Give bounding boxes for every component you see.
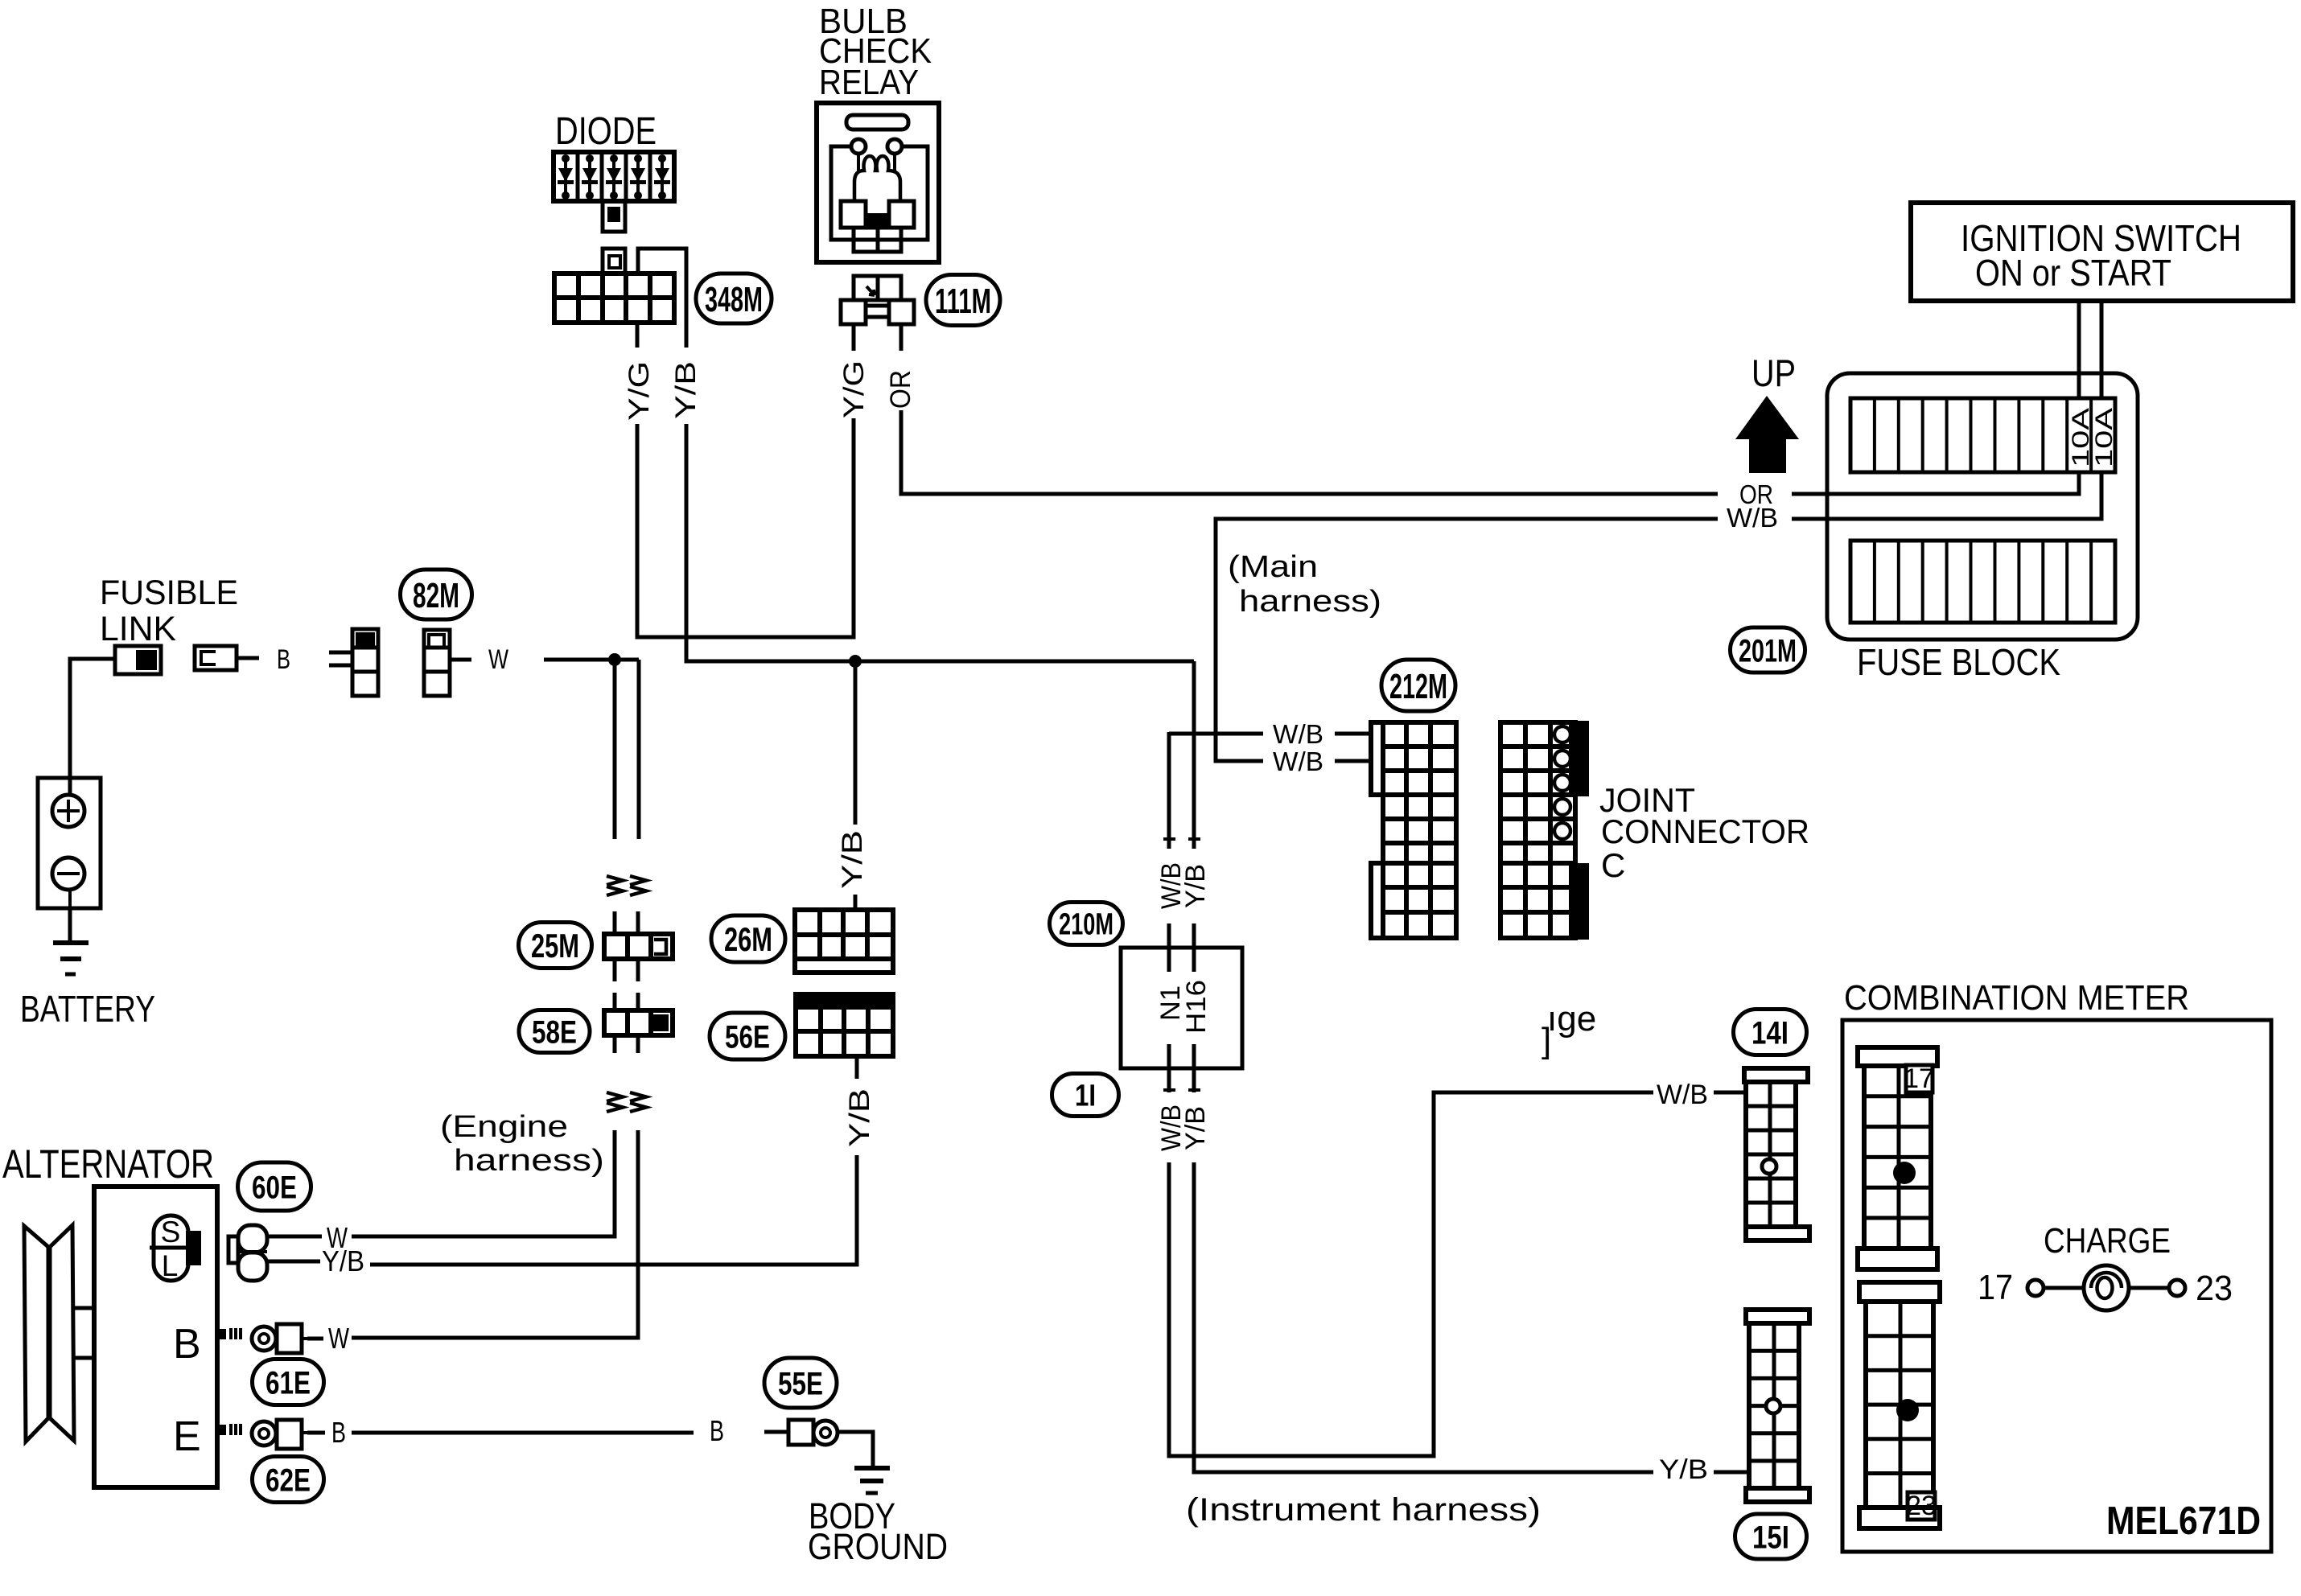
ignition switch box <box>1911 203 2293 301</box>
wire: W/B down to 210M <box>1163 732 1175 849</box>
wire: Y/B net from diode down to main run <box>686 424 1194 661</box>
wire: W/B from corner to label row1 <box>1169 732 1263 736</box>
bulb check relay box <box>817 103 939 262</box>
svg-text:(Engine: (Engine <box>440 1110 568 1144</box>
wire: W feed to junction <box>544 658 639 662</box>
wire: W/B to 14I <box>1169 1092 1653 1456</box>
meter connector strip (17 side) <box>1858 1047 1937 1269</box>
svg-text:Y/B: Y/B <box>322 1244 364 1277</box>
svg-text:W/B: W/B <box>1727 503 1778 533</box>
label Y/G (diode wire) <box>624 361 655 421</box>
oval label 60E <box>238 1162 311 1211</box>
svg-text:111M: 111M <box>935 282 991 321</box>
S/L terminal oval <box>150 1216 201 1282</box>
svg-text:212M: 212M <box>1389 667 1447 706</box>
label Y/B (above 210M) <box>1180 864 1211 908</box>
svg-text:]: ] <box>1542 1021 1551 1060</box>
svg-text:MEL671D: MEL671D <box>2106 1499 2261 1543</box>
connector 56E <box>794 993 895 1056</box>
svg-text:W: W <box>488 644 508 675</box>
diode label <box>555 110 657 153</box>
svg-text:FUSE BLOCK: FUSE BLOCK <box>1857 641 2060 683</box>
connector 15I <box>1746 1310 1809 1502</box>
svg-text:S: S <box>161 1216 181 1248</box>
wire: E terminal to B label <box>307 1431 325 1435</box>
label Y/G (relay wire) <box>838 360 870 418</box>
wire: W main down (pin2) <box>637 660 641 839</box>
svg-text:H16: H16 <box>1181 980 1212 1034</box>
wire: S to W label <box>267 1235 322 1239</box>
svg-text:harness): harness) <box>454 1144 604 1178</box>
wire: W/B into 212M row1 <box>1335 732 1371 736</box>
oval label 56E <box>710 1013 785 1059</box>
svg-text:Y/G: Y/G <box>624 361 655 421</box>
svg-text:62E: 62E <box>265 1462 311 1498</box>
label Y/B (15I wire) <box>1659 1454 1708 1485</box>
svg-text:(Main: (Main <box>1228 550 1318 584</box>
wire: Y/G net diode-to-relay <box>637 418 854 637</box>
wire: Y/B into 15I <box>1714 1471 1749 1475</box>
diode pack bottom tab with black key <box>603 201 625 232</box>
svg-text:Y/B: Y/B <box>1180 1106 1211 1150</box>
wire: W/B from fuse (right half) <box>1792 474 2101 519</box>
wire: W branch down (pin1) <box>613 660 617 839</box>
oval label 55E <box>764 1358 837 1408</box>
fuse row top (with 10A 10A) <box>1850 398 2118 472</box>
alternator label <box>2 1141 214 1187</box>
wire: battery to fusible link <box>70 659 115 796</box>
svg-text:ON or START: ON or START <box>1975 252 2171 294</box>
label B (E wire) <box>331 1416 346 1449</box>
meter connector strip (23 side) <box>1859 1282 1940 1528</box>
main harness note <box>1228 550 1381 619</box>
wire: Y/B stub into 26M <box>854 895 858 910</box>
wire: OR from fuse (right half) <box>1792 474 2079 494</box>
svg-text:56E: 56E <box>725 1019 770 1055</box>
label OR (relay wire) <box>885 370 916 409</box>
connector 60E (S/L) <box>228 1225 267 1281</box>
battery label <box>20 988 155 1030</box>
wire: Y/B 56E to alternator L <box>370 1155 857 1265</box>
svg-text:1I: 1I <box>1075 1080 1096 1113</box>
label H16 (rotated) <box>1181 980 1212 1034</box>
connector 348M body <box>554 274 674 323</box>
svg-text:26M: 26M <box>724 920 772 958</box>
label B terminal <box>173 1321 201 1368</box>
svg-text:OR: OR <box>885 370 916 409</box>
label W/B (212M row1) <box>1273 719 1323 749</box>
B ring terminal <box>252 1324 307 1353</box>
oval label 61E <box>253 1359 324 1405</box>
svg-text:L: L <box>162 1249 179 1282</box>
label N1 (rotated) <box>1155 985 1186 1021</box>
body ground label <box>808 1495 948 1567</box>
UP arrow <box>1735 396 1799 473</box>
svg-text:RELAY: RELAY <box>819 63 919 102</box>
svg-text:17: 17 <box>1904 1063 1934 1094</box>
connector box 210M/1I <box>1121 948 1242 1068</box>
battery <box>38 778 101 908</box>
connector 212M <box>1371 722 1456 938</box>
wire: 348M Y/B pin loop (up and over) <box>638 249 686 348</box>
svg-text:E: E <box>173 1413 201 1460</box>
label Y/B (26M branch) <box>837 830 868 889</box>
wire: stubs below 58E <box>615 1035 638 1053</box>
alternator shaft <box>74 1308 94 1358</box>
oval label 14I <box>1734 1010 1807 1055</box>
svg-text:DIODE: DIODE <box>555 110 657 153</box>
connector 14I <box>1744 1068 1809 1240</box>
svg-text:C: C <box>1601 846 1625 884</box>
svg-text:B: B <box>277 644 290 675</box>
connector (82M mate) <box>352 629 378 696</box>
wire: Y/B down to 210M <box>1188 661 1200 849</box>
wire: 348M Y/G pin stub <box>636 323 640 348</box>
connector 26M <box>795 910 893 973</box>
connector pair stubs <box>329 652 352 665</box>
label W (S wire) <box>327 1221 348 1254</box>
svg-text:210M: 210M <box>1059 908 1113 942</box>
oval label 111M <box>926 275 1000 326</box>
wire: ignition to fuse 10A (1) <box>2077 301 2081 400</box>
UP label <box>1751 352 1796 394</box>
fusible link label <box>100 574 238 648</box>
harness break chevrons below 58E <box>607 1092 646 1112</box>
svg-text:(Instrument harness): (Instrument harness) <box>1186 1492 1541 1528</box>
E ring terminal <box>252 1420 307 1449</box>
svg-text:LINK: LINK <box>100 610 176 648</box>
svg-text:Y/B: Y/B <box>1180 864 1211 908</box>
label Y/B (56E wire) <box>844 1088 875 1147</box>
wire: Y/B to 15I <box>1194 1162 1653 1472</box>
svg-text:W/B: W/B <box>1657 1080 1708 1110</box>
svg-text:W/B: W/B <box>1273 719 1323 749</box>
joint connector C <box>1500 721 1589 940</box>
svg-text:BATTERY: BATTERY <box>20 988 155 1030</box>
ground (body) <box>854 1468 890 1493</box>
diode pack (5 diodes) <box>554 152 674 201</box>
MEL671D code <box>2106 1499 2261 1543</box>
svg-text:25M: 25M <box>531 927 579 965</box>
label E terminal <box>173 1413 201 1460</box>
wire: relay Y/G pin stub <box>852 324 856 351</box>
wire: B terminal to W label <box>307 1337 323 1341</box>
combination meter label <box>1844 978 2189 1018</box>
oval label 348M <box>696 274 772 323</box>
wire: Y/B stub out of 210M <box>1188 1044 1200 1092</box>
wire: L to Y/B label <box>267 1260 320 1264</box>
connector 111M <box>841 276 914 324</box>
label W/B (fuse wire) <box>1727 503 1778 533</box>
label Y/B (diode wire) <box>670 361 702 419</box>
oval label 26M <box>711 915 785 962</box>
svg-text:348M: 348M <box>705 280 763 319</box>
oval label 212M <box>1381 660 1455 711</box>
fuse row bottom <box>1850 541 2115 623</box>
svg-text:CHARGE: CHARGE <box>2044 1221 2171 1261</box>
junction: W node <box>608 653 621 666</box>
wire: OR run relay to fuse block <box>901 410 1718 494</box>
label W/B (14I wire) <box>1657 1080 1708 1110</box>
joint connector C label <box>1599 781 1809 884</box>
label W/B (above 210M) <box>1156 862 1187 909</box>
wire: W to alternator B <box>352 1130 638 1338</box>
svg-text:15I: 15I <box>1752 1520 1789 1555</box>
label OR (fuse wire) <box>1739 479 1773 509</box>
connector (fusible link mate) <box>195 646 259 670</box>
wire: stubs into 25M <box>615 911 638 934</box>
alternator pulley <box>24 1225 74 1442</box>
oval label 62E <box>253 1457 324 1503</box>
fuse block label <box>1857 641 2060 683</box>
oval label 25M <box>519 923 592 969</box>
svg-text:17: 17 <box>1978 1268 2013 1307</box>
wire: 56E Y/B stub down <box>855 1056 859 1079</box>
wire: B run to body ground <box>352 1431 694 1435</box>
svg-text:GROUND: GROUND <box>808 1526 948 1567</box>
connector 58E <box>604 1010 673 1035</box>
svg-text:W/B: W/B <box>1273 747 1323 776</box>
svg-text:61E: 61E <box>265 1365 311 1401</box>
fusible link <box>115 646 161 674</box>
wire: W/B run to main harness <box>1216 519 1718 761</box>
alternator body <box>94 1187 217 1487</box>
svg-text:ıge: ıge <box>1547 999 1596 1039</box>
svg-text:Y/G: Y/G <box>838 360 870 418</box>
svg-text:B: B <box>331 1416 346 1449</box>
wire: ignition to fuse 10A (2) <box>2100 301 2104 400</box>
connector 82M <box>424 630 450 696</box>
svg-text:10A: 10A <box>2091 408 2118 467</box>
junction: Y/B branch to 26M <box>849 655 862 668</box>
CHARGE label <box>2044 1221 2171 1261</box>
wire: relay OR pin stub <box>899 324 904 351</box>
svg-text:Y/B: Y/B <box>844 1088 875 1147</box>
bulb check relay label <box>819 2 932 102</box>
svg-text:Y/B: Y/B <box>670 361 702 419</box>
svg-text:ALTERNATOR: ALTERNATOR <box>2 1141 214 1187</box>
oval label 201M <box>1731 627 1805 673</box>
wire: W to alternator S <box>352 1130 615 1236</box>
svg-text:B: B <box>710 1414 724 1447</box>
fuse block outline <box>1827 373 2138 640</box>
oval label 15I <box>1735 1514 1807 1559</box>
svg-text:23: 23 <box>2196 1269 2233 1308</box>
wire: stubs above 58E <box>615 993 638 1010</box>
wire: 82M stub <box>450 658 471 662</box>
svg-text:UP: UP <box>1751 352 1796 394</box>
instrument harness note <box>1186 1492 1541 1528</box>
charge lamp circuit <box>1978 1265 2233 1310</box>
harness break chevrons above 25M <box>607 876 646 895</box>
oval label 82M <box>401 570 472 619</box>
wire: stubs below 25M <box>615 959 638 981</box>
wire: W/B into 212M row2 <box>1335 759 1371 763</box>
wire: to body ground <box>838 1432 873 1466</box>
label B (ground wire) <box>710 1414 724 1447</box>
connector 25M <box>604 934 673 959</box>
svg-text:CONNECTOR: CONNECTOR <box>1601 812 1809 850</box>
engine harness note <box>440 1110 604 1178</box>
B terminal bolt <box>219 1328 241 1339</box>
oval label 1I <box>1052 1074 1119 1117</box>
svg-text:Y/B: Y/B <box>1659 1454 1708 1485</box>
svg-text:14I: 14I <box>1751 1015 1789 1051</box>
svg-text:B: B <box>173 1321 201 1368</box>
label W/B (212M row2) <box>1273 747 1323 776</box>
oval label 210M <box>1050 903 1123 945</box>
wire: battery to ground <box>68 908 72 942</box>
svg-text:82M: 82M <box>413 576 459 615</box>
combination meter box <box>1842 1020 2271 1552</box>
label Y/B (below 210M) <box>1180 1106 1211 1150</box>
label W/B (below 210M) <box>1156 1104 1187 1151</box>
label Y/B (L wire) <box>322 1244 364 1277</box>
label W (B wire) <box>328 1322 349 1355</box>
svg-text:55E: 55E <box>778 1366 823 1401</box>
connector 348M top tab <box>603 249 625 274</box>
svg-text:COMBINATION METER: COMBINATION METER <box>1844 978 2189 1018</box>
label B (fusible link wire) <box>277 644 290 675</box>
wire: W/B stub into 210M <box>1167 923 1171 972</box>
svg-text:harness): harness) <box>1239 585 1381 619</box>
ground (battery) <box>53 943 88 974</box>
wire: Y/B stub into 210M <box>1192 923 1196 972</box>
svg-text:Y/B: Y/B <box>837 830 868 889</box>
label W (82M wire) <box>488 644 508 675</box>
wire: W/B stub out of 210M <box>1163 1044 1175 1092</box>
svg-text:FUSIBLE: FUSIBLE <box>100 574 238 612</box>
svg-text:60E: 60E <box>252 1170 297 1205</box>
svg-text:58E: 58E <box>532 1014 577 1050</box>
wire: Y/B branch stub to label <box>854 661 858 825</box>
svg-text:201M: 201M <box>1739 633 1797 668</box>
wire: W/B into 14I <box>1714 1091 1746 1095</box>
svg-text:W: W <box>328 1322 349 1355</box>
body ground connector <box>764 1420 838 1445</box>
oval label 58E <box>519 1010 590 1053</box>
text fragment ge <box>1542 999 1596 1060</box>
E terminal bolt <box>219 1424 241 1435</box>
